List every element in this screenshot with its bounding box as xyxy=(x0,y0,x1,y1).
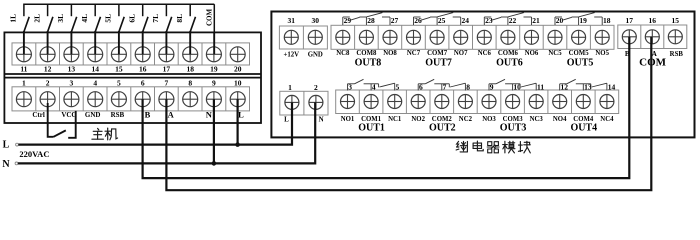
svg-text:3: 3 xyxy=(70,78,74,87)
svg-text:GND: GND xyxy=(308,52,323,59)
terminal 14 screw xyxy=(600,95,614,109)
svg-text:OUT7: OUT7 xyxy=(425,57,452,68)
switch 7L blade xyxy=(166,17,171,32)
svg-text:8L: 8L xyxy=(175,14,184,23)
svg-text:5: 5 xyxy=(117,78,121,87)
wire switch 7L to terminal 17 xyxy=(165,31,167,54)
svg-text:NC8: NC8 xyxy=(336,50,350,57)
relay contact symbol OUT8 (NC-COM closed, NO open) xyxy=(343,13,390,25)
svg-text:6: 6 xyxy=(141,78,145,87)
svg-text:COM8: COM8 xyxy=(356,50,377,57)
terminal 15 screw xyxy=(111,47,126,62)
svg-text:2L: 2L xyxy=(32,14,41,23)
terminal 5 screw xyxy=(111,92,126,107)
terminal 30 screw xyxy=(308,30,322,44)
terminal 6 screw xyxy=(135,92,150,107)
relay strip cells (terminals 31,30) xyxy=(279,26,327,49)
switch 6L blade xyxy=(143,17,148,32)
svg-text:NC3: NC3 xyxy=(530,116,544,123)
terminal 17 screw xyxy=(159,47,174,62)
wire A: host terminal 7 to relay terminal 16 xyxy=(166,37,651,190)
terminal 24 screw xyxy=(454,30,468,44)
terminal 27 screw xyxy=(383,30,397,44)
svg-text:11: 11 xyxy=(537,82,544,91)
svg-text:4: 4 xyxy=(93,78,97,87)
svg-text:19: 19 xyxy=(210,65,218,74)
terminal 3 screw xyxy=(341,95,355,109)
svg-text:4L: 4L xyxy=(80,14,89,23)
svg-text:OUT5: OUT5 xyxy=(567,57,594,68)
svg-text:9: 9 xyxy=(212,78,216,87)
relay contact symbol OUT6 (NC-COM closed, NO open) xyxy=(484,13,531,25)
terminal 9 screw xyxy=(482,95,496,109)
relay contact symbol OUT1 (COM-NC closed, NO open) xyxy=(348,79,395,90)
svg-text:N: N xyxy=(319,116,324,124)
junction N xyxy=(212,161,217,166)
svg-text:NC6: NC6 xyxy=(478,50,492,57)
svg-text:GND: GND xyxy=(85,111,101,119)
svg-text:13: 13 xyxy=(68,65,76,74)
relay module outline (right block) xyxy=(271,12,694,138)
svg-text:20: 20 xyxy=(234,65,242,74)
svg-text:NC5: NC5 xyxy=(548,50,562,57)
svg-text:6L: 6L xyxy=(127,14,136,23)
svg-text:N: N xyxy=(2,159,10,170)
terminal 22 screw xyxy=(501,30,515,44)
switch 5L fixed contact drop xyxy=(118,4,120,17)
relay contact symbol OUT5 (NC-COM closed, NO open) xyxy=(555,13,602,25)
switch 2L fixed contact drop xyxy=(47,4,49,17)
svg-text:22: 22 xyxy=(509,16,517,25)
terminal 15 screw xyxy=(668,30,682,44)
svg-text:16: 16 xyxy=(139,65,147,74)
relay contact symbol OUT2 (COM-NC closed, NO open) xyxy=(418,79,465,90)
wire host terminal 9 (N) to N mains xyxy=(213,99,215,163)
host upper terminal strip cells (terminals 11-20) xyxy=(12,43,250,65)
wire L mains to relay terminal 1 xyxy=(18,102,292,144)
relay strip cells (terminals 1,2) xyxy=(280,91,328,115)
svg-text:21: 21 xyxy=(532,16,540,25)
terminal 1 screw xyxy=(285,95,299,109)
svg-text:NO5: NO5 xyxy=(595,50,609,57)
terminal 10 screw xyxy=(230,92,245,107)
wire bus COM drop to terminal 19 xyxy=(213,4,215,33)
terminal 13 screw xyxy=(576,95,590,109)
node N supply circle xyxy=(15,162,18,165)
svg-text:24: 24 xyxy=(462,16,470,25)
switch 3L fixed contact drop xyxy=(70,4,72,17)
terminal 14 screw xyxy=(88,47,103,62)
terminal 12 screw xyxy=(40,47,55,62)
svg-text:N: N xyxy=(206,110,213,120)
svg-text:14: 14 xyxy=(608,82,616,91)
svg-text:L: L xyxy=(3,139,10,150)
svg-text:OUT1: OUT1 xyxy=(358,123,385,134)
svg-text:NC1: NC1 xyxy=(388,116,402,123)
svg-text:NO2: NO2 xyxy=(411,116,425,123)
svg-text:OUT2: OUT2 xyxy=(429,123,456,134)
svg-text:Ctrl: Ctrl xyxy=(32,111,44,119)
wire host terminal 10 (L) to L mains xyxy=(237,99,239,144)
mains bus wire (top) xyxy=(24,3,214,5)
svg-text:COM: COM xyxy=(639,57,667,69)
terminal 2 screw xyxy=(40,92,55,107)
switch blade Ctrl-VCC (open) xyxy=(54,130,66,136)
terminal 25 screw xyxy=(430,30,444,44)
svg-text:16: 16 xyxy=(649,16,657,25)
svg-text:17: 17 xyxy=(626,16,634,25)
relay contact symbol OUT3 (COM-NC closed, NO open) xyxy=(489,79,536,90)
terminal 21 screw xyxy=(525,30,539,44)
terminal 19 screw xyxy=(572,30,586,44)
relay strip cells (terminals 17,16,15) xyxy=(618,25,687,49)
switch 3L blade xyxy=(71,17,76,32)
svg-text:14: 14 xyxy=(91,65,99,74)
switch 8L blade xyxy=(190,17,195,32)
switch 1L blade xyxy=(24,17,29,32)
relay strip cells (terminals 3-14) xyxy=(336,90,619,114)
svg-text:NC4: NC4 xyxy=(600,116,614,123)
terminal 18 screw xyxy=(183,47,198,62)
terminal 8 screw xyxy=(183,92,198,107)
svg-text:11: 11 xyxy=(20,65,27,74)
terminal 4 screw xyxy=(88,92,103,107)
separator double line between host terminal rows xyxy=(4,74,261,78)
switch 4L fixed contact drop xyxy=(94,4,96,17)
switch 2L blade xyxy=(48,17,53,32)
svg-text:COM5: COM5 xyxy=(569,50,590,57)
svg-text:8: 8 xyxy=(188,78,192,87)
svg-text:NC2: NC2 xyxy=(459,116,473,123)
svg-text:NO3: NO3 xyxy=(482,116,496,123)
terminal 18 screw xyxy=(595,30,609,44)
terminal 7 screw xyxy=(435,95,449,109)
terminal 26 screw xyxy=(407,30,421,44)
svg-text:OUT4: OUT4 xyxy=(570,123,597,134)
svg-text:5L: 5L xyxy=(104,14,113,23)
terminal 10 screw xyxy=(506,95,520,109)
svg-text:NO6: NO6 xyxy=(525,50,539,57)
terminal 19 screw xyxy=(206,47,221,62)
terminal 4 screw xyxy=(364,95,378,109)
svg-text:NO7: NO7 xyxy=(454,50,468,57)
terminal 8 screw xyxy=(458,95,472,109)
switch 5L blade xyxy=(119,17,124,32)
svg-text:1: 1 xyxy=(22,78,26,87)
relay strip cells (terminals 29-18) xyxy=(331,25,614,49)
svg-text:19: 19 xyxy=(579,16,587,25)
svg-text:A: A xyxy=(168,110,175,120)
svg-text:18: 18 xyxy=(186,65,194,74)
switch 8L fixed contact drop xyxy=(189,4,191,17)
svg-text:1: 1 xyxy=(288,83,292,92)
svg-text:25: 25 xyxy=(438,16,446,25)
svg-text:12: 12 xyxy=(44,65,52,74)
svg-text:17: 17 xyxy=(163,65,171,74)
svg-text:2: 2 xyxy=(314,83,318,92)
relay contact symbol OUT7 (NC-COM closed, NO open) xyxy=(414,13,461,25)
svg-text:OUT6: OUT6 xyxy=(496,57,523,68)
svg-text:15: 15 xyxy=(672,16,680,25)
switch 1L fixed contact drop xyxy=(23,4,25,17)
terminal 23 screw xyxy=(477,30,491,44)
switch 7L fixed contact drop xyxy=(165,4,167,17)
host unit outline (left block) xyxy=(4,32,261,123)
svg-text:1L: 1L xyxy=(9,14,18,23)
junction L xyxy=(235,142,240,147)
label relay module text ji-dian-qi-mo-kuai xyxy=(456,141,530,153)
svg-text:30: 30 xyxy=(312,16,320,25)
svg-text:18: 18 xyxy=(603,16,611,25)
label host text zhu-ji (main unit) xyxy=(92,128,118,140)
svg-text:3L: 3L xyxy=(56,14,65,23)
svg-text:2: 2 xyxy=(46,78,50,87)
switch 6L fixed contact drop xyxy=(142,4,144,17)
svg-text:7: 7 xyxy=(165,78,169,87)
svg-text:31: 31 xyxy=(288,16,296,25)
wire N mains to relay terminal 2 xyxy=(18,102,315,163)
terminal 17 screw xyxy=(622,30,636,44)
wire switch 1L to terminal 11 xyxy=(23,31,25,54)
svg-text:B: B xyxy=(145,110,151,120)
terminal 1 screw xyxy=(16,92,31,107)
svg-text:15: 15 xyxy=(115,65,123,74)
svg-text:OUT8: OUT8 xyxy=(355,57,382,68)
wire terminal 3 (VCC) down to switch xyxy=(68,111,76,138)
terminal 2 screw xyxy=(309,95,323,109)
wire switch 8L to terminal 18 xyxy=(189,31,191,54)
svg-text:5: 5 xyxy=(396,82,400,91)
wire switch 6L to terminal 16 xyxy=(142,31,144,54)
terminal 11 screw xyxy=(16,47,31,62)
svg-text:27: 27 xyxy=(391,16,399,25)
terminal 5 screw xyxy=(388,95,402,109)
terminal 16 screw xyxy=(135,47,150,62)
svg-text:NO4: NO4 xyxy=(553,116,567,123)
svg-text:NO1: NO1 xyxy=(341,116,355,123)
switch 4L blade xyxy=(95,17,100,32)
terminal 16 screw xyxy=(645,30,659,44)
svg-text:COM: COM xyxy=(206,9,214,27)
wire terminal 2 (Ctrl) down to switch xyxy=(48,103,54,137)
node L supply circle xyxy=(16,143,19,146)
wire switch 2L to terminal 12 xyxy=(47,31,49,54)
terminal 9 screw xyxy=(206,92,221,107)
host lower terminal strip cells (terminals 1-10) xyxy=(12,87,250,111)
svg-text:+12V: +12V xyxy=(284,52,300,59)
svg-text:L: L xyxy=(238,110,244,120)
terminal 6 screw xyxy=(411,95,425,109)
terminal 12 screw xyxy=(553,95,567,109)
svg-text:28: 28 xyxy=(367,16,375,25)
terminal 28 screw xyxy=(359,30,373,44)
relay contact symbol OUT4 (COM-NC closed, NO open) xyxy=(560,79,607,90)
svg-text:10: 10 xyxy=(234,78,242,87)
svg-text:VCC: VCC xyxy=(61,111,76,119)
terminal 20 screw xyxy=(230,47,245,62)
svg-text:8: 8 xyxy=(466,82,470,91)
wire switch 5L to terminal 15 xyxy=(118,31,120,54)
svg-text:RSB: RSB xyxy=(670,51,684,58)
wire switch 4L to terminal 14 xyxy=(94,31,96,54)
terminal 20 screw xyxy=(548,30,562,44)
terminal 11 screw xyxy=(529,95,543,109)
svg-text:NC7: NC7 xyxy=(407,50,421,57)
svg-text:COM7: COM7 xyxy=(427,50,448,57)
svg-text:RSB: RSB xyxy=(111,111,125,119)
svg-text:7L: 7L xyxy=(151,14,160,23)
terminal 13 screw xyxy=(64,47,79,62)
svg-text:L: L xyxy=(284,116,289,124)
wire switch 3L to terminal 13 xyxy=(70,31,72,54)
svg-text:NO8: NO8 xyxy=(383,50,397,57)
svg-text:220VAC: 220VAC xyxy=(19,149,49,159)
svg-text:OUT3: OUT3 xyxy=(500,123,527,134)
wire B: host terminal 6 to relay terminal 17 xyxy=(143,37,630,178)
terminal 3 screw xyxy=(64,92,79,107)
terminal 31 screw xyxy=(284,30,298,44)
terminal 29 screw xyxy=(336,30,350,44)
terminal 7 screw xyxy=(159,92,174,107)
svg-text:COM6: COM6 xyxy=(498,50,519,57)
